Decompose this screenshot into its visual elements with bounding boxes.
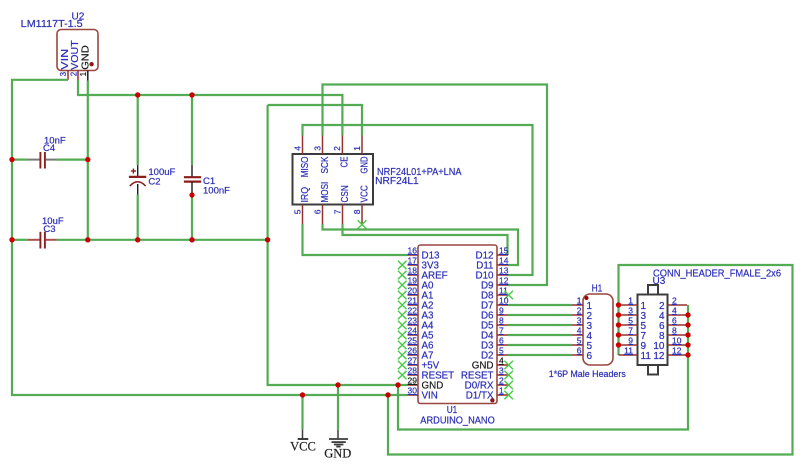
H1 pin 3 stub xyxy=(572,324,583,326)
GND ground symbol xyxy=(337,430,339,439)
U1 left pin 19 A0 stub xyxy=(408,284,419,286)
U1 no-connect X pin 28 xyxy=(398,371,407,380)
U1 right pin 12 D9 stub xyxy=(497,284,508,286)
junction dots xyxy=(135,92,140,97)
svg-text:25: 25 xyxy=(408,335,418,345)
svg-text:1*6P Male Headers: 1*6P Male Headers xyxy=(549,369,626,380)
svg-text:7: 7 xyxy=(499,325,504,335)
U3 left pin 1 stub xyxy=(619,304,638,306)
svg-text:24: 24 xyxy=(408,325,418,335)
svg-text:3: 3 xyxy=(628,305,633,315)
connector U3 body xyxy=(638,295,668,366)
svg-text:16: 16 xyxy=(408,245,418,255)
U1 no-connect X pin 23 xyxy=(398,321,407,330)
wire U1 D3 to H1 pin 5 xyxy=(508,344,572,346)
wire SCK to U1 D9 xyxy=(323,85,548,286)
svg-text:6: 6 xyxy=(587,351,593,362)
wire U1 D5 to H1 pin 3 xyxy=(508,324,572,326)
U1 no-connect X pin 24 xyxy=(398,331,407,340)
U1 no-connect X pin 27 xyxy=(398,361,407,370)
U1 origin dot xyxy=(490,398,494,402)
U1 no-connect X pin 3 xyxy=(504,371,513,380)
wire U1 D4 to H1 pin 4 xyxy=(508,334,572,336)
U1 left pin 29 GND stub xyxy=(408,384,419,386)
H1 pin 4 stub xyxy=(572,334,583,336)
connector U3 bottom tab xyxy=(648,365,658,375)
NRF24L01 module body xyxy=(293,154,374,205)
svg-text:17: 17 xyxy=(408,255,418,265)
svg-text:10: 10 xyxy=(499,295,509,305)
wire C3 left segment xyxy=(12,239,28,241)
wire to GND symbol xyxy=(337,385,339,430)
U1 left pin 27 +5V stub xyxy=(408,364,419,366)
svg-text:8: 8 xyxy=(352,209,362,214)
U1 left pin 22 A3 stub xyxy=(408,314,419,316)
svg-text:VIN: VIN xyxy=(422,390,438,401)
svg-text:3: 3 xyxy=(312,146,322,151)
svg-text:26: 26 xyxy=(408,345,418,355)
capacitor C4 10nF xyxy=(28,159,40,161)
svg-text:100nF: 100nF xyxy=(203,185,230,196)
svg-text:9: 9 xyxy=(499,305,504,315)
U3 left pin 3 stub xyxy=(619,314,638,316)
wire NRF GND pin1 up-left xyxy=(268,105,362,136)
U1 no-connect X pin 20 xyxy=(398,291,407,300)
H1 pin 1 stub xyxy=(572,304,583,306)
U3 left pin 7 stub xyxy=(619,334,638,336)
svg-text:15: 15 xyxy=(499,245,509,255)
U1 right pin 14 D11 stub xyxy=(497,264,508,266)
svg-text:19: 19 xyxy=(408,275,418,285)
svg-text:C3: C3 xyxy=(43,224,55,235)
wire U2 GND down xyxy=(87,81,89,241)
U1 right pin 8 D5 stub xyxy=(497,324,508,326)
svg-text:CE: CE xyxy=(340,156,351,167)
U3 left pin 11 stub xyxy=(619,354,638,356)
svg-text:NRF24L1: NRF24L1 xyxy=(375,176,419,187)
svg-text:MOSI: MOSI xyxy=(320,182,331,203)
wire C4 left segment xyxy=(12,159,28,161)
wire C4 right segment xyxy=(57,159,88,161)
wire C1 bottom xyxy=(191,197,193,240)
capacitor C1 100nF xyxy=(191,165,193,177)
wire C2 bottom xyxy=(137,195,139,240)
U1 left pin 21 A2 stub xyxy=(408,304,419,306)
svg-text:6: 6 xyxy=(312,209,322,214)
svg-text:1: 1 xyxy=(628,295,633,305)
svg-text:H1: H1 xyxy=(592,283,603,294)
H1 pin 2 stub xyxy=(572,314,583,316)
svg-text:IRQ: IRQ xyxy=(300,187,311,203)
U1 left pin 18 AREF stub xyxy=(408,274,419,276)
svg-text:18: 18 xyxy=(408,265,418,275)
wire branch C2 top xyxy=(137,95,139,165)
svg-text:13: 13 xyxy=(499,265,509,275)
U1 right pin 6 D3 stub xyxy=(497,344,508,346)
svg-text:C4: C4 xyxy=(43,143,55,154)
wire MISO to U1 D10 xyxy=(303,125,533,275)
wire IRQ to U1 D13 xyxy=(303,224,408,255)
U3 right pin 8 stub xyxy=(668,334,688,336)
svg-text:10: 10 xyxy=(672,335,682,345)
wire U1 D2 to H1 pin 6 xyxy=(508,354,572,356)
U3 left pin 5 stub xyxy=(619,324,638,326)
svg-text:1: 1 xyxy=(352,146,362,151)
wire to VCC symbol xyxy=(301,395,303,429)
U1 no-connect X pin 18 xyxy=(398,271,407,280)
svg-text:4: 4 xyxy=(292,146,302,151)
svg-text:1: 1 xyxy=(577,295,582,305)
svg-text:5: 5 xyxy=(292,209,302,214)
svg-text:22: 22 xyxy=(408,305,418,315)
U1 right pin 11 D8 stub xyxy=(497,294,508,296)
svg-text:ARDUINO_NANO: ARDUINO_NANO xyxy=(420,416,495,427)
U1 left pin 30 VIN stub xyxy=(408,394,419,396)
U1 no-connect X pin 11 xyxy=(504,291,513,300)
svg-text:2: 2 xyxy=(69,71,78,76)
svg-text:27: 27 xyxy=(408,355,418,365)
svg-text:U1: U1 xyxy=(447,405,458,416)
wire VIN net: U2 pin3 left, down, along bottom to U1 VIN pin30 xyxy=(12,80,408,395)
U1 no-connect X pin 1 xyxy=(504,391,513,400)
U1 left pin 17 3V3 stub xyxy=(408,264,419,266)
U1 no-connect X pin 17 xyxy=(398,261,407,270)
H1 pin 5 stub xyxy=(572,344,583,346)
U1 right pin 9 D6 stub xyxy=(497,314,508,316)
svg-text:8: 8 xyxy=(499,315,504,325)
U2 origin dot xyxy=(89,62,93,66)
svg-text:12: 12 xyxy=(499,275,509,285)
C1 pin dot xyxy=(189,192,194,197)
svg-text:1: 1 xyxy=(499,385,504,395)
svg-text:LM1117T-1.5: LM1117T-1.5 xyxy=(21,19,83,30)
svg-text:1: 1 xyxy=(79,71,88,76)
header H1 body xyxy=(583,294,613,365)
svg-text:29: 29 xyxy=(408,375,418,385)
svg-text:12: 12 xyxy=(653,351,665,362)
H1 origin dot xyxy=(585,296,589,300)
U1 left pin 24 A5 stub xyxy=(408,334,419,336)
wire GND bottom rail xyxy=(57,239,268,241)
svg-text:5: 5 xyxy=(577,335,582,345)
U1 right pin 1 D1/TX stub xyxy=(497,394,508,396)
svg-text:3: 3 xyxy=(59,71,68,76)
U1 right pin 15 D12 stub xyxy=(497,254,508,256)
svg-text:7: 7 xyxy=(332,209,342,214)
svg-text:28: 28 xyxy=(408,365,418,375)
svg-text:12: 12 xyxy=(672,345,682,355)
svg-text:8: 8 xyxy=(672,325,677,335)
U1 no-connect X pin 22 xyxy=(398,311,407,320)
svg-text:30: 30 xyxy=(408,385,418,395)
svg-text:C2: C2 xyxy=(148,177,160,188)
U1 right pin 3 RESET stub xyxy=(497,374,508,376)
U1 right pin 13 D10 stub xyxy=(497,274,508,276)
U1 left pin 28 RESET stub xyxy=(408,374,419,376)
wire MOSI to U1 D11 xyxy=(323,224,519,265)
svg-text:11: 11 xyxy=(624,345,633,355)
U1 no-connect X pin 26 xyxy=(398,351,407,360)
U3 right pin 10 stub xyxy=(668,344,688,346)
svg-text:4: 4 xyxy=(499,355,504,365)
svg-text:4: 4 xyxy=(672,305,677,315)
wire GND rail down-right to U1 pin29 xyxy=(268,105,408,385)
svg-text:7: 7 xyxy=(628,325,633,335)
U1 left pin 23 A4 stub xyxy=(408,324,419,326)
svg-text:21: 21 xyxy=(408,295,418,305)
svg-text:CSN: CSN xyxy=(340,185,351,202)
svg-text:14: 14 xyxy=(499,255,509,265)
connector U3 top tab xyxy=(648,285,658,295)
svg-text:3: 3 xyxy=(577,315,582,325)
U1 left pin 16 D13 stub xyxy=(408,254,419,256)
U3 right pin 4 stub xyxy=(668,314,688,316)
U1 right pin 4 GND stub xyxy=(497,364,508,366)
capacitor C3 10uF xyxy=(28,239,40,241)
svg-text:MISO: MISO xyxy=(300,156,311,177)
svg-text:6: 6 xyxy=(499,335,504,345)
svg-text:2: 2 xyxy=(332,146,342,151)
U3 right pin 12 stub xyxy=(668,354,688,356)
U3 right pin 2 stub xyxy=(668,304,688,306)
svg-text:23: 23 xyxy=(408,315,418,325)
U1 right pin 10 D7 stub xyxy=(497,304,508,306)
NRF24 top pin stubs 4,3,2,1 xyxy=(302,136,304,155)
svg-text:2: 2 xyxy=(577,305,582,315)
svg-text:GND: GND xyxy=(359,157,370,174)
svg-text:SCK: SCK xyxy=(320,156,331,173)
wire U1 D6 to H1 pin 2 xyxy=(508,314,572,316)
U1 right pin 7 D4 stub xyxy=(497,334,508,336)
U1 right pin 2 D0/RX stub xyxy=(497,384,508,386)
svg-text:5: 5 xyxy=(628,315,633,325)
svg-text:5: 5 xyxy=(499,345,504,355)
U1 no-connect X pin 2 xyxy=(504,381,513,390)
wire branch C1 top xyxy=(191,95,193,165)
U3 right pin 6 stub xyxy=(668,324,688,326)
U1 no-connect X pin 4 xyxy=(504,361,513,370)
U2 pin 3 VIN stub xyxy=(67,71,69,80)
U1 no-connect X pin 21 xyxy=(398,301,407,310)
svg-text:11: 11 xyxy=(641,351,652,362)
U1 left pin 20 A1 stub xyxy=(408,294,419,296)
svg-text:2: 2 xyxy=(499,375,504,385)
U1 no-connect X pin 25 xyxy=(398,341,407,350)
U3 left pin 9 stub xyxy=(619,344,638,346)
svg-text:CONN_HEADER_FMALE_2x6: CONN_HEADER_FMALE_2x6 xyxy=(653,269,781,280)
svg-text:GND: GND xyxy=(324,447,351,461)
VCC power symbol xyxy=(302,429,304,439)
U2 pin 2 VOUT stub xyxy=(77,71,79,81)
U1 right pin 5 D2 stub xyxy=(497,354,508,356)
NRF24 bottom pin stubs 5,6,7,8 xyxy=(302,205,304,225)
Arduino Nano U1 body xyxy=(418,245,497,404)
wire VOUT net: U2 pin2 down and right to NRF CE xyxy=(78,80,342,136)
U2 pin 1 GND stub xyxy=(87,71,89,81)
svg-text:2: 2 xyxy=(672,295,677,305)
svg-text:20: 20 xyxy=(408,285,418,295)
U1 left pin 26 A7 stub xyxy=(408,354,419,356)
H1 pin 6 stub xyxy=(572,354,583,356)
capacitor C2 100uF polarized xyxy=(137,165,139,176)
U1 left pin 25 A6 stub xyxy=(408,344,419,346)
wire VIN loop to U3 left column xyxy=(388,265,793,455)
svg-text:9: 9 xyxy=(628,335,633,345)
NRF24 no-connect X on pin 8 VCC xyxy=(358,220,367,229)
voltage regulator U2 body xyxy=(57,30,98,71)
svg-text:VCC: VCC xyxy=(290,440,316,454)
wire CSN to U1 D12 xyxy=(343,224,508,255)
svg-text:6: 6 xyxy=(577,345,582,355)
wire GND net to U3 right column xyxy=(398,305,688,430)
wire U1 D7 to H1 pin 1 xyxy=(508,304,572,306)
U1 no-connect X pin 19 xyxy=(398,281,407,290)
svg-text:4: 4 xyxy=(577,325,582,335)
svg-text:D1/TX: D1/TX xyxy=(466,390,494,401)
svg-text:GND: GND xyxy=(80,45,92,70)
svg-text:6: 6 xyxy=(672,315,677,325)
svg-text:3: 3 xyxy=(499,365,504,375)
svg-text:VCC: VCC xyxy=(359,185,370,202)
